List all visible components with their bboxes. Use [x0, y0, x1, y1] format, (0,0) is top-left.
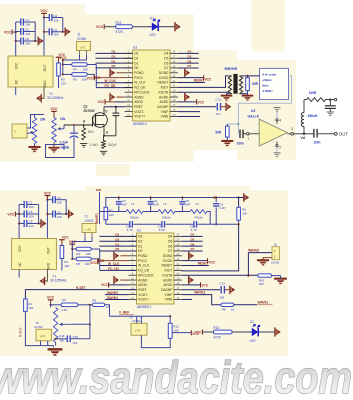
- filter block 8th order elliptic 2.5MHz: [260, 68, 289, 99]
- svg-text:2.5MHz: 2.5MHz: [262, 89, 273, 93]
- svg-text:4.7P: 4.7P: [127, 228, 133, 232]
- svg-text:VCC: VCC: [18, 244, 22, 251]
- svg-text:106: 106: [53, 33, 58, 37]
- node VCC: [40, 9, 48, 17]
- junction: [247, 275, 249, 277]
- net FQ_UD: [96, 84, 132, 88]
- net PVCC VCC: [98, 258, 129, 263]
- svg-text:VCC: VCC: [44, 191, 52, 195]
- net D5: [182, 237, 203, 241]
- svg-text:VCC: VCC: [97, 100, 104, 104]
- svg-text:S: S: [106, 130, 108, 134]
- oscillator Y1: [8, 56, 64, 100]
- resistor 1.9k: [89, 136, 105, 149]
- svg-text:CON2: CON2: [34, 325, 43, 329]
- wire: [140, 316, 142, 323]
- junction: [115, 106, 117, 108]
- svg-text:50R: 50R: [252, 82, 259, 86]
- resistor 50R input: [215, 124, 229, 141]
- svg-text:IOUTB: IOUTB: [158, 90, 168, 94]
- svg-text:DVDD: DVDD: [159, 76, 169, 80]
- capacitor 510pF: [108, 107, 119, 147]
- capacitor decoupling: [325, 100, 336, 116]
- junction: [43, 31, 64, 33]
- svg-text:CON2: CON2: [85, 219, 94, 223]
- wire: [63, 59, 87, 61]
- resistor R5: [63, 73, 87, 82]
- svg-text:DACBP: DACBP: [157, 105, 168, 109]
- svg-text:L3: L3: [195, 202, 199, 206]
- svg-text:LED: LED: [250, 339, 257, 343]
- capacitor C6: [213, 198, 225, 225]
- svg-text:≡ P1: ≡ P1: [135, 328, 141, 332]
- node VCC: [59, 236, 69, 246]
- wire: [95, 65, 97, 88]
- svg-text:DVDD: DVDD: [163, 259, 173, 263]
- svg-text:R11: R11: [59, 334, 65, 338]
- wire: [227, 123, 238, 125]
- svg-text:L1: L1: [131, 202, 135, 206]
- port arrow DGND: [185, 69, 190, 77]
- svg-text:AVDD: AVDD: [134, 100, 143, 104]
- op-amp pin 4: [273, 108, 281, 124]
- svg-text:106: 106: [53, 18, 58, 22]
- wire: [141, 335, 170, 347]
- svg-text:C1: C1: [29, 201, 33, 205]
- svg-text:PGND: PGND: [134, 71, 144, 75]
- svg-text:L2: L2: [163, 202, 167, 206]
- ground: [221, 141, 233, 146]
- LED D1: [250, 320, 261, 343]
- IC U1 AD9851: [129, 229, 182, 310]
- svg-text:FQ_UD: FQ_UD: [134, 86, 146, 90]
- oscillator Y1: [11, 239, 67, 283]
- connector J2 CON1: [130, 315, 147, 335]
- junction: [238, 223, 240, 225]
- port arrow AGND: [189, 276, 194, 284]
- svg-text:3: 3: [291, 127, 293, 131]
- port arrow: [275, 327, 281, 336]
- net AVDD VCC: [182, 282, 209, 287]
- wire: [41, 87, 44, 98]
- svg-text:VOUT+: VOUT+: [138, 298, 149, 302]
- svg-text:RESET: RESET: [158, 81, 169, 85]
- connector J1 CON2: [82, 215, 96, 233]
- wire source: [103, 127, 105, 136]
- capacitor 100n output: [304, 129, 334, 145]
- wire: [272, 275, 281, 277]
- op-amp output pin 3: [287, 127, 304, 135]
- wire: [39, 223, 41, 225]
- wire: [18, 270, 20, 278]
- svg-text:500uH: 500uH: [130, 215, 139, 219]
- wire: [169, 316, 171, 323]
- wire: [91, 248, 100, 250]
- svg-text:GND: GND: [46, 262, 50, 270]
- net WAVE4: [105, 296, 129, 300]
- LED D1: [150, 16, 161, 37]
- wire: [72, 241, 92, 243]
- wire: [207, 212, 210, 225]
- wire: [104, 26, 115, 28]
- net WAVE3: [105, 291, 129, 295]
- svg-text:104: 104: [72, 341, 77, 345]
- wire: [197, 220, 238, 224]
- svg-text:D2: D2: [138, 239, 142, 243]
- wire: [99, 249, 101, 270]
- port arrow AGND: [114, 276, 129, 284]
- svg-text:AVDD: AVDD: [160, 100, 169, 104]
- wire: [46, 137, 75, 157]
- wire: [66, 213, 68, 215]
- svg-text:CON2: CON2: [271, 261, 280, 265]
- svg-text:680uH: 680uH: [308, 114, 318, 118]
- svg-text:R4: R4: [73, 68, 77, 72]
- svg-text:VCC: VCC: [4, 30, 12, 34]
- svg-text:8-th order: 8-th order: [262, 73, 277, 77]
- port arrow: [175, 22, 181, 31]
- svg-text:VOUT-: VOUT-: [134, 110, 144, 114]
- wire: [72, 323, 90, 325]
- capacitor C11: [158, 221, 165, 232]
- wire: [40, 341, 42, 346]
- net RESET: [178, 79, 205, 83]
- svg-text:2.2P: 2.2P: [220, 206, 226, 210]
- svg-text:IOUTB: IOUTB: [162, 273, 172, 277]
- wire gate: [64, 124, 93, 126]
- svg-text:15P: 15P: [185, 203, 190, 207]
- svg-text:OUT: OUT: [46, 247, 50, 254]
- svg-text:VCC: VCC: [15, 62, 19, 69]
- svg-text:R5: R5: [76, 262, 80, 266]
- port arrow: [69, 210, 75, 219]
- svg-text:C9: C9: [57, 211, 61, 215]
- capacitor C9: [44, 28, 63, 36]
- node VCC: [194, 330, 202, 335]
- junction: [246, 75, 248, 77]
- wire: [62, 18, 64, 32]
- node Vd: [300, 133, 305, 140]
- wire: [133, 223, 161, 225]
- svg-text:D6: D6: [164, 61, 168, 65]
- svg-text:www.sandacite.com: www.sandacite.com: [0, 352, 352, 400]
- net AVDD VCC: [97, 99, 124, 104]
- ground: [100, 150, 107, 152]
- ground: [80, 143, 87, 145]
- node VCC: [96, 24, 104, 29]
- svg-text:VCC: VCC: [62, 236, 69, 240]
- wire: [50, 303, 52, 307]
- svg-text:≡ P1: ≡ P1: [86, 228, 92, 232]
- resistor R6: [92, 298, 109, 309]
- ground: [49, 142, 60, 152]
- connector J3 CON2: [34, 321, 51, 341]
- svg-text:≡ P1: ≡ P1: [80, 46, 86, 50]
- wire: [62, 60, 64, 74]
- wire IOUTB R10: [182, 274, 258, 276]
- net D4: [178, 50, 199, 54]
- ground: [242, 96, 254, 100]
- resistor R10: [258, 274, 272, 286]
- node VCC: [44, 191, 52, 199]
- wire: [79, 51, 81, 56]
- svg-text:106: 106: [219, 296, 224, 300]
- capacitor C5: [19, 210, 38, 218]
- net D1: [99, 242, 136, 246]
- svg-text:AVDD: AVDD: [164, 283, 173, 287]
- net FQ_UD: [100, 267, 137, 271]
- capacitor C1: [19, 201, 38, 209]
- svg-text:C5: C5: [29, 210, 33, 214]
- svg-text:100: 100: [259, 282, 264, 286]
- svg-text:AVDD: AVDD: [138, 283, 147, 287]
- ground: [221, 96, 233, 100]
- svg-text:DGND: DGND: [159, 71, 169, 75]
- wire: [136, 316, 138, 323]
- svg-text:VCC: VCC: [47, 296, 55, 300]
- inductor 680uH: [301, 100, 318, 134]
- junction: [71, 248, 73, 260]
- ground: [39, 277, 44, 285]
- port arrow: [38, 37, 44, 46]
- net D2: [99, 237, 136, 241]
- wire: [160, 26, 174, 28]
- svg-text:100: 100: [242, 212, 247, 216]
- svg-text:≡ P1: ≡ P1: [40, 334, 46, 338]
- svg-text:10n: 10n: [215, 112, 220, 116]
- wire: [15, 22, 17, 41]
- svg-text:VCC: VCC: [208, 261, 215, 265]
- svg-text:elliptic: elliptic: [262, 78, 272, 82]
- ground: [28, 144, 40, 152]
- svg-text:OUT: OUT: [339, 132, 349, 137]
- svg-text:1: 1: [247, 137, 249, 141]
- svg-text:AGND: AGND: [159, 95, 169, 99]
- svg-text:10k: 10k: [60, 117, 66, 121]
- junction: [103, 135, 105, 137]
- svg-text:472K: 472K: [213, 336, 221, 340]
- svg-text:D4: D4: [164, 52, 168, 56]
- svg-text:J1: J1: [77, 33, 81, 37]
- svg-text:WAVE1: WAVE1: [95, 213, 99, 224]
- net D4: [182, 233, 203, 237]
- wire: [34, 22, 36, 41]
- net D7: [178, 64, 199, 68]
- svg-text:W_CLK: W_CLK: [134, 81, 146, 85]
- IC U3 AD9851: [125, 46, 178, 127]
- wire drain: [103, 107, 105, 113]
- resistor R9: [236, 198, 247, 221]
- svg-text:≡: ≡: [15, 129, 17, 133]
- svg-text:30.125MHz: 30.125MHz: [50, 279, 67, 283]
- net PVCC VCC: [94, 75, 125, 80]
- svg-text:VINP: VINP: [165, 293, 173, 297]
- wire: [247, 91, 249, 96]
- ground: [257, 260, 269, 265]
- svg-text:472K: 472K: [116, 30, 124, 34]
- svg-text:VINP: VINP: [161, 110, 169, 114]
- wire: [38, 205, 40, 224]
- resistor R13: [116, 21, 133, 34]
- wire: [104, 135, 116, 137]
- svg-text:RFCLOCK: RFCLOCK: [138, 273, 154, 277]
- wire: [55, 342, 57, 345]
- capacitor C2: [44, 14, 63, 22]
- junction: [118, 196, 216, 198]
- net WAVE2: [182, 291, 221, 305]
- svg-text:VCC: VCC: [40, 9, 48, 13]
- svg-text:OUT: OUT: [43, 65, 47, 72]
- svg-text:VCC: VCC: [101, 283, 108, 287]
- resistor 50ohm: [82, 125, 94, 140]
- svg-text:C2: C2: [53, 14, 57, 18]
- svg-text:100: 100: [61, 82, 66, 86]
- net RESET: [182, 262, 209, 266]
- wire: [133, 26, 150, 28]
- svg-text:LED: LED: [150, 33, 157, 37]
- capacitor C1: [16, 18, 36, 26]
- capacitor C3: [116, 198, 127, 212]
- svg-text:J6: J6: [274, 243, 278, 247]
- net D6: [182, 242, 203, 246]
- wire: [15, 41, 17, 56]
- svg-text:C8: C8: [29, 220, 33, 224]
- capacitor C8: [19, 220, 38, 228]
- port arrow AGND: [110, 93, 125, 101]
- transformer 50R/50R: [225, 67, 238, 94]
- svg-text:U1: U1: [137, 229, 141, 233]
- ground: [274, 279, 287, 284]
- svg-text:NC: NC: [15, 79, 19, 84]
- potentiometer 20k: [27, 115, 46, 144]
- transformer secondary coil: [239, 76, 242, 94]
- wire: [65, 200, 67, 214]
- svg-text:10K: 10K: [173, 329, 178, 333]
- svg-text:DACBP: DACBP: [161, 288, 172, 292]
- svg-text:D6: D6: [168, 244, 172, 248]
- svg-text:5.6P: 5.6P: [159, 228, 165, 232]
- svg-text:GND: GND: [43, 80, 47, 88]
- port arrow PGND: [110, 69, 125, 77]
- junction: [169, 315, 171, 317]
- connector pad: [12, 124, 27, 138]
- svg-text:104: 104: [29, 215, 34, 219]
- junction: [46, 199, 48, 201]
- svg-text:PGND: PGND: [138, 254, 148, 258]
- svg-text:D3: D3: [134, 52, 138, 56]
- wire: [45, 270, 48, 282]
- svg-text:GALI-5: GALI-5: [248, 115, 259, 119]
- inductor L3: [190, 202, 207, 219]
- svg-text:470uH: 470uH: [194, 215, 203, 219]
- svg-text:104: 104: [25, 42, 30, 46]
- net D3: [99, 233, 136, 237]
- wire bottom rail: [106, 223, 129, 225]
- svg-text:VOUT-: VOUT-: [138, 293, 148, 297]
- svg-text:R8: R8: [222, 307, 226, 311]
- svg-text:22P: 22P: [154, 203, 159, 207]
- svg-text:C9: C9: [53, 28, 57, 32]
- net WAVE1: [234, 301, 273, 305]
- svg-text:106: 106: [57, 215, 62, 219]
- port arrow AGND: [185, 93, 190, 101]
- svg-text:50R/50R: 50R/50R: [225, 67, 238, 71]
- resistor R4: [72, 247, 91, 256]
- watermark www.sandacite.com: [0, 352, 352, 400]
- connector J6 CON2: [271, 243, 280, 265]
- net DVDD VCC: [182, 258, 216, 264]
- wire VINP: [178, 111, 200, 113]
- wire: [63, 125, 65, 129]
- svg-text:10K: 10K: [86, 252, 91, 256]
- junction: [46, 213, 67, 215]
- node VCC: [4, 30, 16, 35]
- net W_CLK: [96, 79, 132, 83]
- capacitor C5 shunt: [179, 198, 190, 212]
- svg-text:VCC: VCC: [90, 261, 97, 265]
- svg-text:IOUT: IOUT: [165, 269, 173, 273]
- junction: [89, 323, 91, 325]
- svg-text:C5: C5: [25, 28, 29, 32]
- svg-text:AGND: AGND: [138, 278, 148, 282]
- node VCC: [47, 296, 55, 304]
- svg-text:R4: R4: [76, 252, 80, 256]
- svg-text:30.125MHz: 30.125MHz: [47, 96, 64, 100]
- svg-text:R6: R6: [92, 298, 96, 302]
- wire: [46, 200, 48, 239]
- svg-text:AGND: AGND: [134, 95, 144, 99]
- svg-text:R2: R2: [62, 298, 66, 302]
- net D0: [96, 64, 133, 68]
- svg-text:4.7P: 4.7P: [191, 228, 197, 232]
- junction: [18, 213, 40, 225]
- ground: [48, 346, 63, 355]
- svg-text:C8: C8: [25, 37, 29, 41]
- wire: [78, 304, 92, 306]
- wire: [203, 331, 214, 333]
- svg-text:NC: NC: [18, 262, 22, 267]
- junction: [215, 196, 240, 225]
- svg-text:1K: 1K: [231, 307, 235, 311]
- potentiometer R11 10K: [53, 308, 71, 343]
- junction: [55, 338, 57, 340]
- svg-text:C1: C1: [25, 18, 29, 22]
- inductor L2: [158, 202, 175, 219]
- wire: [27, 115, 44, 129]
- svg-text:100: 100: [64, 264, 69, 268]
- junction: [89, 304, 91, 306]
- resistor R4: [63, 63, 88, 72]
- svg-text:J1: J1: [85, 215, 89, 219]
- resistor R7: [104, 207, 114, 219]
- svg-text:500uH: 500uH: [162, 215, 171, 219]
- wire RSET: [104, 106, 125, 108]
- capacitor C9: [47, 211, 66, 219]
- junction: [237, 123, 239, 125]
- wire VINN: [182, 298, 192, 300]
- node VCC: [87, 74, 95, 80]
- wire: [63, 31, 65, 33]
- port arrow: [230, 286, 235, 294]
- net DVDD VCC: [178, 75, 212, 81]
- svg-text:W_CLK: W_CLK: [138, 264, 150, 268]
- svg-text:2N7002: 2N7002: [83, 109, 94, 113]
- svg-text:D5: D5: [168, 239, 172, 243]
- resistor R8: [221, 303, 235, 311]
- wire: [182, 224, 239, 271]
- resistor R12: [168, 323, 179, 338]
- wire: [25, 311, 53, 345]
